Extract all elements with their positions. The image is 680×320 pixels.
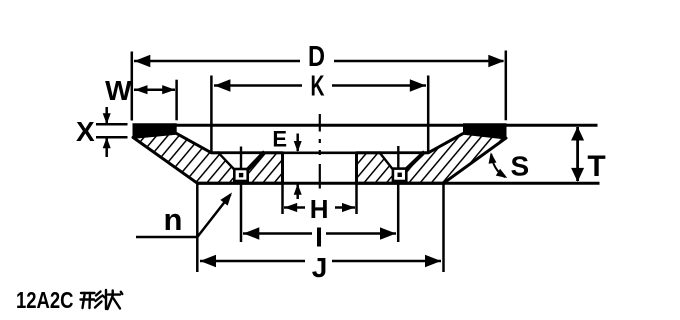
abrasive rim section left (black) <box>133 124 176 138</box>
svg-text:D: D <box>308 41 325 73</box>
svg-text:J: J <box>312 252 328 283</box>
svg-text:K: K <box>311 71 325 103</box>
leader n <box>136 190 236 237</box>
caption CJK glyph 状 drawn as strokes <box>103 290 123 309</box>
center line <box>319 114 321 189</box>
top face line <box>133 124 598 127</box>
caption CJK glyph 形 drawn as strokes <box>81 292 102 309</box>
svg-text:T: T <box>587 150 605 183</box>
bottom face line <box>197 182 599 185</box>
dimension X <box>76 107 127 157</box>
dimension J <box>197 183 443 283</box>
dimension D <box>132 41 506 121</box>
screw hole center stub right <box>397 146 399 168</box>
screw hole dot left <box>239 173 243 177</box>
svg-text:E: E <box>272 127 287 152</box>
dimension T <box>571 127 606 184</box>
dimension K <box>211 71 428 153</box>
svg-text:H: H <box>310 194 329 224</box>
angle S <box>487 150 529 181</box>
svg-text:X: X <box>76 116 95 147</box>
countersink notch left <box>218 151 265 169</box>
countersink notch right <box>379 151 425 169</box>
dimension I <box>241 181 398 253</box>
screw hole dot right <box>398 173 402 177</box>
recess floor line <box>211 152 428 155</box>
screw hole center stub left <box>240 147 242 169</box>
svg-text:n: n <box>164 202 183 237</box>
dimension H <box>283 153 357 224</box>
svg-text:S: S <box>510 150 529 181</box>
wheel body right (hatched cone wall + hub) <box>357 133 507 183</box>
dimension W <box>105 75 176 120</box>
svg-text:12A2C: 12A2C <box>16 287 74 313</box>
abrasive rim section right (black) <box>464 124 507 138</box>
dimension E <box>272 127 301 199</box>
screw hole square right <box>393 169 406 181</box>
wheel body left (hatched cone wall + hub) <box>133 133 283 183</box>
svg-text:I: I <box>315 222 323 253</box>
svg-text:W: W <box>105 75 132 106</box>
screw hole square left <box>234 169 247 181</box>
